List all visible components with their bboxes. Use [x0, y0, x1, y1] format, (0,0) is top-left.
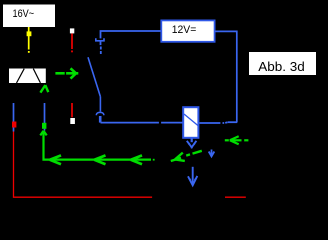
green dot — [153, 159, 155, 161]
wire blue stub right (to green node) — [44, 103, 46, 131]
green current path (L-shape with arrows) — [40, 131, 154, 165]
wire blue stub left (to red node) — [13, 103, 15, 132]
node red square — [12, 122, 16, 128]
node green square — [42, 123, 46, 129]
node white square (lower) — [70, 118, 75, 124]
controller box (phase control) — [9, 69, 46, 84]
green arrowhead left 3 — [131, 155, 142, 159]
green arrow left (dashed, right of relay) — [225, 136, 249, 144]
wire from 12V box down to relay — [215, 31, 237, 122]
wire red (upper) — [71, 34, 73, 53]
relay bottom stub — [191, 139, 193, 143]
svg-text:16V~: 16V~ — [13, 8, 35, 20]
label box Abb. 3d — [249, 52, 316, 75]
switch blade lower vertical — [99, 97, 101, 112]
blue arrow down large — [188, 167, 197, 186]
12V supply box — [161, 20, 214, 41]
voltage source label 16V~ — [3, 5, 55, 28]
switch blade (open) — [88, 57, 100, 96]
blue arrow down small — [209, 150, 215, 157]
switch pivot dome — [96, 112, 103, 115]
wire right of relay (dash-dot) — [200, 121, 238, 124]
wire yellow (16V feed) — [28, 27, 30, 53]
green arrow down-left (dashed, at relay) — [171, 151, 202, 161]
node white square — [70, 28, 74, 33]
blue arrowhead down (under relay) — [187, 141, 197, 149]
switch contact stub — [100, 42, 102, 46]
svg-text:12V=: 12V= — [172, 24, 197, 36]
green arrowhead left 2 — [94, 155, 105, 159]
switch pivot stub (thick) — [99, 116, 102, 123]
green arrowhead up — [40, 131, 43, 136]
node yellow square — [27, 31, 32, 36]
wire to relay (bottom horizontal) — [101, 122, 159, 124]
relay / actuator box — [183, 107, 198, 138]
green arrowhead left 1 — [50, 155, 61, 159]
green arrow right (signal) — [55, 68, 78, 78]
wire red (middle segment) — [71, 103, 73, 117]
switch fixed contact cup — [96, 38, 104, 41]
switch: top wire to 12V box — [101, 31, 162, 38]
svg-text:Abb. 3d: Abb. 3d — [258, 59, 305, 74]
wire red return (left + bottom) — [14, 132, 153, 198]
switch dashed stub — [100, 47, 102, 50]
green arrow up (below controller) — [40, 85, 48, 93]
wire red dash (bottom) — [225, 196, 246, 198]
